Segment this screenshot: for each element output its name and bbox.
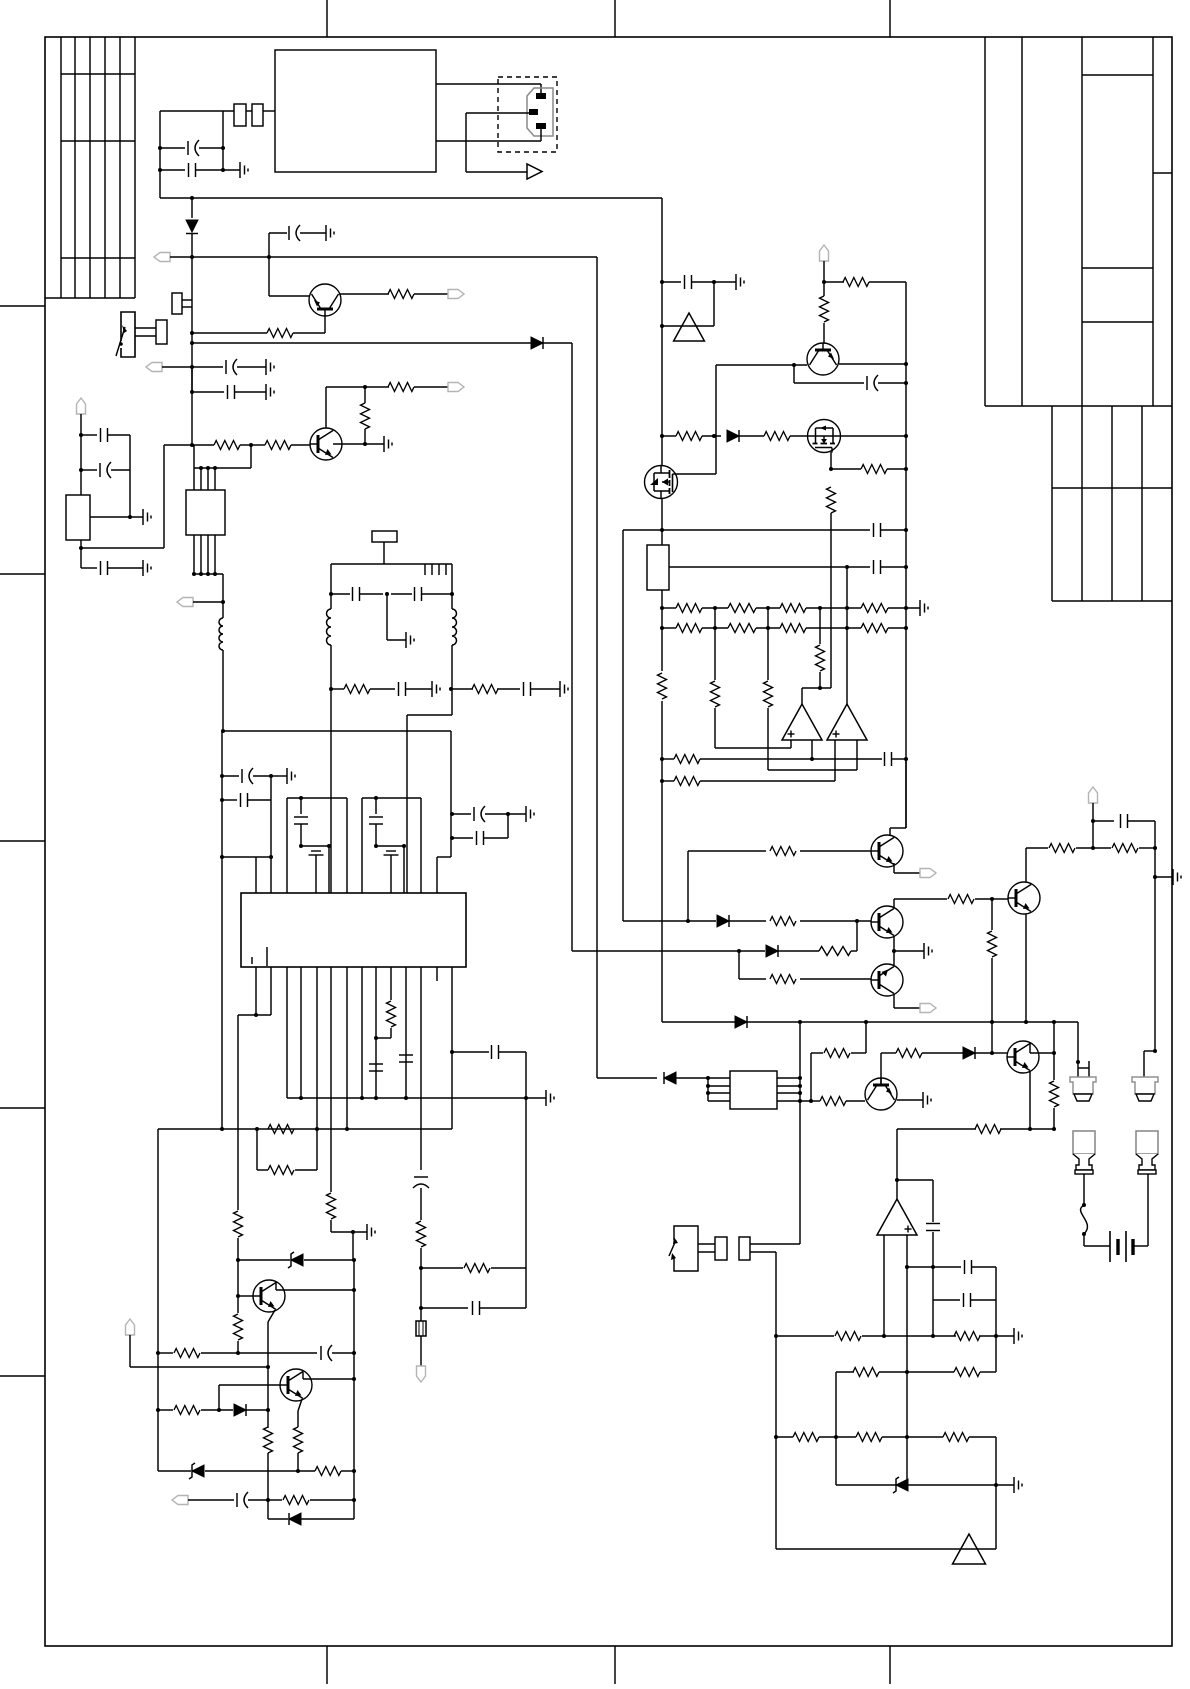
wire [688, 920, 716, 922]
wire [698, 1243, 715, 1245]
junction [706, 1076, 710, 1080]
wire [661, 590, 663, 671]
wire [194, 573, 223, 575]
ground GND7 [384, 436, 392, 452]
connector flag P10 [820, 245, 829, 261]
wire [328, 846, 330, 893]
wire [836, 1484, 896, 1486]
wire [108, 567, 143, 569]
junction [1153, 846, 1157, 850]
resistor R37 [861, 624, 888, 633]
junction [220, 774, 224, 778]
wire [375, 798, 377, 814]
capacitor C1 [294, 817, 308, 824]
wire [421, 1307, 468, 1309]
wire [191, 234, 193, 257]
wire [303, 1378, 354, 1380]
junction [713, 626, 717, 630]
wire [662, 607, 676, 609]
op-amp U6 [877, 1199, 917, 1235]
wire [738, 951, 740, 979]
resistor R14 [268, 1166, 294, 1175]
junction [713, 606, 717, 610]
junction [221, 168, 225, 172]
zener diode ZD2 [189, 1463, 204, 1479]
junction [822, 280, 826, 284]
wire [1030, 1052, 1054, 1054]
wire [196, 169, 240, 171]
junction [221, 729, 225, 733]
connector flag P12 [920, 1004, 936, 1013]
wire [905, 759, 907, 828]
connector flag P5 [448, 383, 464, 392]
wire [835, 1372, 837, 1485]
wire [756, 627, 780, 629]
wire [499, 1051, 526, 1053]
junction [524, 1096, 528, 1100]
pin-1 mark [251, 957, 253, 964]
wire (bus) [214, 468, 216, 490]
wire [270, 776, 272, 893]
junction [236, 1258, 240, 1262]
wire [480, 1307, 526, 1309]
capacitor C24 [685, 275, 692, 289]
wire [979, 1335, 996, 1337]
wire [933, 1299, 960, 1301]
wire [255, 857, 257, 893]
wire [390, 1028, 392, 1038]
wire [662, 529, 870, 531]
wire [932, 1180, 934, 1222]
junction [706, 1091, 710, 1095]
AC inlet connector J1 [527, 88, 553, 136]
wire [972, 1266, 996, 1268]
transistor Q1 [309, 284, 341, 316]
wire [237, 1015, 239, 1210]
frame tick mark (left) [0, 1375, 45, 1377]
wire [353, 1260, 355, 1519]
pin 3 [536, 123, 546, 129]
junction [1153, 1049, 1157, 1053]
junction [904, 362, 908, 366]
zener diode ZD3 [893, 1477, 908, 1493]
wire [135, 335, 156, 337]
resistor R40 [816, 645, 825, 671]
junction [990, 1051, 994, 1055]
resistor R63 [943, 1433, 969, 1442]
junction [352, 1377, 356, 1381]
junction [351, 1230, 355, 1234]
junction [352, 1258, 356, 1262]
wire [800, 920, 871, 922]
wire [708, 1092, 730, 1094]
ground GND19 [923, 1092, 931, 1108]
wire [714, 608, 716, 680]
wire [237, 1238, 239, 1296]
wire [286, 967, 288, 1098]
wire [933, 1335, 956, 1337]
wire [361, 798, 363, 893]
resistor R44 [770, 847, 796, 856]
junction [660, 528, 664, 532]
wire [888, 627, 906, 629]
junction [706, 1084, 710, 1088]
wire [163, 445, 165, 548]
junction [329, 592, 333, 596]
wire [201, 1352, 238, 1354]
resistor R6 [361, 403, 370, 429]
wire [360, 593, 383, 595]
wire [237, 1341, 239, 1353]
wire [971, 1299, 996, 1301]
wire [1143, 1051, 1145, 1077]
junction [249, 443, 253, 447]
wire [193, 601, 223, 603]
wire (AC bus) [160, 197, 662, 199]
wire [662, 1021, 735, 1023]
wire [669, 566, 845, 568]
junction [199, 572, 203, 576]
revision table (top-left) [45, 37, 135, 298]
junction [217, 1408, 221, 1412]
wire [108, 434, 130, 436]
wire [661, 498, 663, 545]
wire [1092, 803, 1094, 848]
frame tick mark (top) [889, 0, 891, 37]
wire [811, 1052, 823, 1054]
connector half J5 [739, 1237, 750, 1260]
ground GND21 [1014, 1477, 1022, 1493]
junction [221, 600, 225, 604]
resistor R24 [820, 296, 829, 322]
junction [1082, 1203, 1086, 1207]
wire (bus) [193, 445, 195, 490]
resistor R55 [820, 1097, 846, 1106]
wire [1026, 847, 1048, 849]
junction [220, 798, 224, 802]
pin mark [424, 564, 426, 575]
wire [851, 950, 857, 952]
wire [253, 775, 271, 777]
wire [806, 627, 861, 629]
resistor R38 [711, 681, 720, 707]
junction [269, 855, 273, 859]
wire [316, 967, 318, 1129]
wire [420, 1268, 422, 1308]
inductor L2 [327, 609, 332, 645]
wire [881, 529, 906, 531]
wire [1029, 1043, 1031, 1053]
resistor R17 [174, 1349, 200, 1358]
resistor R10 [327, 1193, 336, 1219]
ground GND18 [1173, 869, 1181, 885]
wire [267, 1322, 269, 1367]
junction [892, 949, 896, 953]
wire [341, 1470, 354, 1472]
wire (bus) [207, 468, 209, 490]
junction [905, 1370, 909, 1374]
jumper W1 [416, 1321, 426, 1336]
wire [414, 293, 448, 295]
transistor Q3 [253, 1280, 285, 1312]
wire [130, 1366, 268, 1368]
resistor R60 [954, 1368, 980, 1377]
wire [661, 701, 663, 1022]
wire [160, 147, 185, 149]
capacitor C22 (polarized) [321, 1345, 332, 1361]
fuse F1 [234, 104, 246, 126]
junction [299, 796, 303, 800]
junction [766, 626, 770, 630]
capacitor C8 [101, 561, 108, 575]
wire (stub) [436, 967, 438, 981]
wire [776, 1335, 834, 1337]
wire [739, 978, 766, 980]
pin mark [438, 564, 440, 575]
wire [700, 758, 882, 760]
wire [865, 1022, 867, 1053]
wire [403, 846, 405, 893]
wire [714, 708, 716, 748]
ground GND5 [143, 509, 151, 525]
wire [531, 688, 560, 690]
junction [352, 1469, 356, 1473]
wire [300, 967, 302, 1098]
wire [800, 978, 871, 980]
capacitor C5 [228, 385, 235, 399]
ground GND20 [1014, 1328, 1022, 1344]
junction [774, 1334, 778, 1338]
wire [386, 594, 388, 640]
wire [330, 967, 332, 1192]
wire [81, 434, 97, 436]
wire [819, 1436, 856, 1438]
resistor R30 [676, 604, 702, 613]
wire [897, 1128, 976, 1130]
connector flag P13 [1089, 787, 1098, 803]
connector flag P11 [920, 869, 936, 878]
resistor R11 [387, 1001, 396, 1027]
MOSFET Q7 [645, 466, 678, 499]
capacitor C23 (polarized) [237, 1492, 248, 1508]
wire [452, 837, 473, 839]
wire [1093, 820, 1114, 822]
junction [79, 468, 83, 472]
capacitor C20 [492, 1045, 499, 1059]
wire [662, 627, 676, 629]
wire [135, 327, 156, 329]
wire [881, 1052, 896, 1054]
junction [419, 1306, 423, 1310]
wire [975, 898, 992, 900]
junction [206, 466, 210, 470]
wire [933, 1266, 961, 1268]
wire [451, 564, 453, 609]
ground GND12 [287, 768, 295, 784]
wire [370, 688, 395, 690]
junction [213, 466, 217, 470]
junction [905, 1265, 909, 1269]
junction [904, 467, 908, 471]
wire [623, 920, 688, 922]
wire [836, 1371, 854, 1373]
wire [325, 387, 327, 428]
junction [450, 836, 454, 840]
wire [235, 391, 266, 393]
wire [346, 967, 348, 1129]
wire [297, 1411, 299, 1427]
frame tick mark (left) [0, 573, 45, 575]
diode D2 [531, 337, 543, 349]
wire [894, 950, 924, 952]
wire [293, 332, 325, 334]
wire [777, 1100, 811, 1102]
wire [497, 688, 520, 690]
wire [420, 1336, 422, 1366]
op-amp U3 [782, 704, 822, 740]
wire [218, 1385, 220, 1410]
wire [375, 967, 377, 1038]
wire [362, 797, 421, 799]
junction [855, 919, 859, 923]
wire [888, 607, 920, 609]
junction [990, 1020, 994, 1024]
ground GND13 [546, 1090, 554, 1106]
wire [80, 540, 82, 568]
junction [128, 515, 132, 519]
wire (bus) [214, 535, 216, 574]
wire [713, 282, 715, 326]
wire [219, 1384, 280, 1386]
transistor Q8 [871, 835, 903, 867]
junction [686, 919, 690, 923]
junction [374, 844, 378, 848]
wire [160, 110, 234, 112]
wire [287, 797, 347, 799]
wire [111, 469, 130, 471]
junction [798, 1084, 802, 1088]
capacitor C16 [241, 793, 248, 807]
junction [266, 1498, 270, 1502]
diode D7 [766, 945, 778, 957]
wire [188, 1499, 234, 1501]
shunt R29 [647, 545, 669, 590]
wire [420, 967, 422, 1170]
diode D6 [717, 915, 729, 927]
earth symbol E1 [527, 164, 542, 179]
wire [1147, 1174, 1149, 1246]
wire [1088, 1061, 1090, 1077]
junction [809, 1099, 813, 1103]
junction [895, 1178, 899, 1182]
wire [291, 444, 310, 446]
wire [1077, 1022, 1079, 1077]
wire [304, 1259, 354, 1261]
wire [238, 1014, 271, 1016]
junction [845, 565, 849, 569]
wire [540, 84, 542, 95]
wire [271, 775, 287, 777]
wire [892, 758, 906, 760]
wire (supply rail) [905, 282, 907, 828]
wire [572, 950, 739, 952]
wire [491, 1267, 526, 1269]
junction [402, 844, 406, 848]
junction [213, 572, 217, 576]
ground GND8 [406, 632, 414, 648]
junction [450, 812, 454, 816]
wire [1025, 848, 1027, 882]
wire [300, 798, 302, 814]
diode D4 [289, 1513, 301, 1525]
wire [129, 1335, 131, 1367]
wire [819, 672, 821, 688]
wire [729, 920, 766, 922]
connector flag P9 [172, 1496, 188, 1505]
wire [799, 1022, 801, 1244]
wire [451, 689, 453, 715]
resistor R45 [770, 917, 796, 926]
frame tick mark (top) [326, 0, 328, 37]
indicator plug J2 [1073, 1131, 1095, 1174]
wire (V+ rail) [170, 256, 597, 258]
capacitor C2 [189, 163, 196, 177]
junction [882, 1334, 886, 1338]
wire [422, 593, 452, 595]
wire [702, 607, 728, 609]
wire [420, 1308, 422, 1321]
junction [1052, 1127, 1056, 1131]
junction [220, 1127, 224, 1131]
wire [775, 1252, 777, 1549]
capacitor C11 [399, 682, 406, 696]
wire [893, 994, 895, 1008]
wire [295, 1169, 317, 1171]
capacitor C29 [1121, 814, 1128, 828]
wire [256, 1129, 258, 1170]
capacitor C4 (polarized) [226, 359, 237, 375]
wire [887, 468, 906, 470]
indicator lamp DS1 [1070, 1077, 1096, 1101]
wire [267, 1410, 269, 1428]
junction [190, 196, 194, 200]
wire [862, 1335, 933, 1337]
wire [286, 798, 288, 893]
optocoupler U5 [730, 1071, 777, 1109]
wire [276, 1289, 354, 1291]
wire [390, 855, 392, 893]
wire [222, 111, 224, 170]
junction [798, 1020, 802, 1024]
junction [845, 626, 849, 630]
wire (gnd bus) [287, 1097, 526, 1099]
wire [662, 281, 681, 283]
wire [81, 547, 164, 549]
resistor R5 [388, 383, 414, 392]
wire [301, 845, 329, 847]
wire [698, 1251, 715, 1253]
junction [255, 1127, 259, 1131]
wire [906, 1235, 908, 1485]
resistor R59 [853, 1368, 879, 1377]
resistor R54 [896, 1049, 922, 1058]
junction [931, 1265, 935, 1269]
connector flag P4 [77, 398, 86, 414]
wire [316, 1129, 318, 1170]
controller IC U2 [241, 893, 466, 967]
ground GND15 [736, 274, 744, 290]
wire [893, 863, 895, 873]
